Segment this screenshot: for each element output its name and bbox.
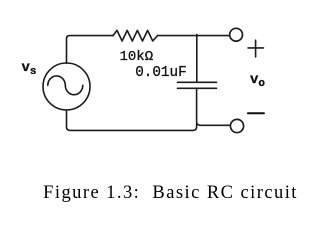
wire bottom: source bottom around to node B (67, 110, 197, 130)
label vo (250, 72, 265, 90)
wire: capacitor bottom to corner, then to lower terminal (197, 88, 231, 125)
wire top: node A to terminal (197, 35, 230, 37)
minus sign (248, 112, 264, 114)
wire top: resistor to node A (158, 35, 197, 37)
terminal top (output +) (230, 28, 243, 41)
plus sign (248, 40, 264, 57)
caption (5, 183, 331, 204)
label 0.01uF (135, 65, 186, 81)
source VS circle (43, 63, 90, 110)
capacitor C bottom plate (178, 87, 217, 89)
label vs (22, 60, 37, 78)
resistor R (10k) zigzag (113, 30, 158, 41)
wire top: source to resistor (67, 36, 114, 64)
node A notch (196, 34, 198, 35)
terminal bottom (output -) (230, 119, 243, 132)
label 10k ohm (120, 49, 154, 65)
wire: node A down to capacitor top plate (196, 36, 198, 83)
capacitor C top plate (178, 81, 217, 83)
source VS sine wave (48, 76, 83, 95)
